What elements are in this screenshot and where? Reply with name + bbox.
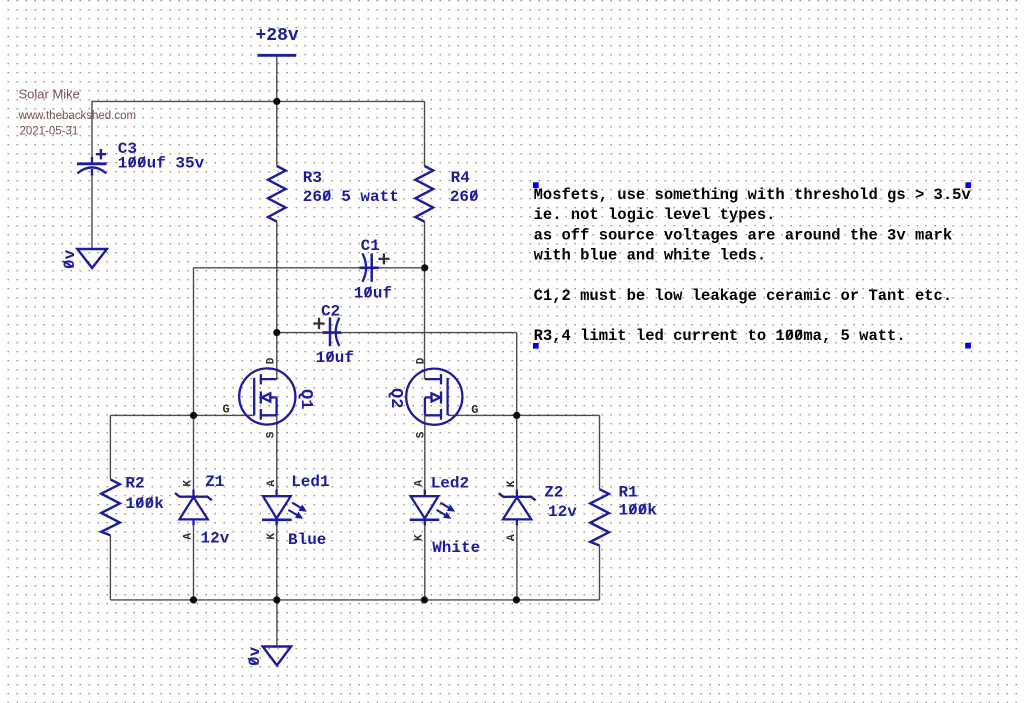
svg-text:C1,2 must be low leakage ceram: C1,2 must be low leakage ceramic or Tant… — [534, 287, 953, 305]
svg-text:R1: R1 — [619, 484, 638, 502]
mosfet Q1 pin labels — [223, 357, 278, 438]
svg-text:D: D — [266, 357, 278, 364]
svg-text:C1: C1 — [361, 237, 380, 255]
svg-text:A: A — [183, 533, 195, 540]
svg-text:12v: 12v — [201, 530, 230, 548]
capacitor C1 plus — [378, 253, 389, 264]
svg-text:ie. not logic level types.: ie. not logic level types. — [534, 206, 776, 224]
led Led1 pin labels — [266, 480, 278, 540]
svg-text:A: A — [506, 534, 518, 541]
svg-text:R3: R3 — [303, 169, 322, 187]
svg-text:260 5 watt: 260 5 watt — [303, 188, 399, 206]
svg-text:Z2: Z2 — [544, 483, 563, 501]
svg-text:100k: 100k — [125, 495, 164, 513]
svg-text:2021-05-31: 2021-05-31 — [20, 126, 79, 138]
resistor R3 — [268, 166, 286, 222]
mosfet Q1 — [239, 368, 295, 424]
svg-text:Led2: Led2 — [431, 475, 469, 493]
svg-text:Blue: Blue — [288, 531, 326, 549]
svg-text:S: S — [266, 431, 278, 438]
junction node dots — [190, 98, 520, 604]
capacitor C1 — [359, 253, 378, 281]
note text block — [534, 186, 972, 345]
zener Z1 labels — [201, 473, 230, 547]
svg-text:10uf: 10uf — [316, 349, 354, 367]
wire C2 net — [277, 333, 517, 416]
svg-text:A: A — [414, 480, 426, 487]
wire top rail — [92, 100, 425, 102]
zener Z1 — [175, 489, 212, 525]
wire bottom rail — [110, 599, 599, 601]
svg-text:R3,4 limit led current to 100m: R3,4 limit led current to 100ma, 5 watt. — [534, 327, 906, 345]
wire C3 branch — [91, 101, 93, 249]
resistor R1 labels — [619, 484, 658, 520]
capacitor C2 labels — [316, 302, 354, 367]
led Led2 labels — [431, 475, 481, 557]
svg-text:as off source voltages are aro: as off source voltages are around the 3v… — [534, 226, 953, 244]
svg-text:D: D — [415, 357, 427, 364]
ground 0v (C3) — [61, 249, 107, 269]
resistor R2 — [101, 480, 120, 536]
zener Z2 labels — [544, 483, 577, 521]
zener Z2 — [499, 489, 536, 525]
wire Q2 gate rail — [448, 414, 599, 416]
wire ground lead — [276, 600, 278, 647]
resistor R4 — [415, 166, 433, 222]
zener Z2 pin labels — [506, 480, 518, 541]
svg-text:+28v: +28v — [256, 26, 299, 46]
led Led1 arrows — [288, 503, 307, 519]
capacitor C3 labels — [118, 140, 205, 173]
capacitor C2 plus — [313, 318, 324, 329]
svg-text:260: 260 — [450, 188, 479, 206]
capacitor C3 — [77, 149, 107, 176]
svg-text:K: K — [183, 480, 195, 487]
svg-text:G: G — [471, 403, 478, 417]
svg-text:Z1: Z1 — [205, 473, 224, 491]
svg-text:A: A — [266, 480, 278, 487]
wire R1 loop — [599, 415, 601, 600]
title block text — [18, 87, 137, 138]
svg-text:C2: C2 — [321, 302, 340, 320]
wire C1 net — [194, 268, 425, 416]
svg-text:G: G — [223, 403, 230, 417]
svg-text:10uf: 10uf — [354, 285, 392, 303]
led Led1 labels — [288, 473, 330, 549]
wire R3 branch — [276, 101, 278, 600]
svg-text:K: K — [506, 480, 518, 487]
resistor R2 labels — [125, 475, 164, 513]
zener Z1 pin labels — [183, 480, 195, 540]
svg-text:www.thebackshed.com: www.thebackshed.com — [18, 110, 137, 122]
mosfet Q2 — [406, 369, 462, 425]
wire Q1 gate rail — [110, 414, 254, 416]
capacitor C2 — [323, 317, 342, 346]
wire R2 loop — [109, 415, 111, 600]
svg-text:Mosfets, use something with th: Mosfets, use something with threshold gs… — [534, 186, 972, 204]
led Led2 arrows — [437, 503, 456, 519]
resistor R3 labels — [303, 169, 399, 206]
svg-text:Q2: Q2 — [386, 388, 405, 408]
note selection handles — [533, 182, 971, 348]
mosfet Q2 pin labels — [415, 357, 478, 438]
svg-text:with blue and white leds.: with blue and white leds. — [534, 247, 767, 265]
resistor R1 — [590, 489, 609, 545]
svg-text:Solar Mike: Solar Mike — [19, 87, 80, 102]
led Led1 — [262, 489, 292, 525]
ground 0v (bottom) — [246, 646, 291, 666]
wire Z1 branch — [193, 415, 195, 600]
wire Z2 branch — [516, 415, 518, 600]
svg-text:100k: 100k — [619, 502, 658, 520]
resistor R4 labels — [450, 169, 479, 206]
svg-text:White: White — [432, 539, 480, 557]
led Led2 pin labels — [414, 480, 426, 541]
svg-text:Led1: Led1 — [291, 473, 329, 491]
wire R4 branch — [424, 101, 426, 600]
power +28v — [256, 26, 299, 55]
capacitor C1 labels — [354, 237, 392, 303]
svg-text:12v: 12v — [548, 503, 577, 521]
svg-text:K: K — [414, 534, 426, 541]
svg-text:R2: R2 — [125, 475, 144, 493]
svg-text:K: K — [266, 533, 278, 540]
svg-text:S: S — [415, 431, 427, 438]
svg-text:R4: R4 — [451, 169, 471, 187]
wire +28v lead — [276, 55, 278, 101]
led Led2 — [410, 489, 440, 525]
svg-text:Q1: Q1 — [296, 389, 315, 409]
